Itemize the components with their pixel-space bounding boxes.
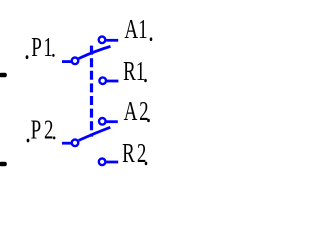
wire P2 stub	[62, 142, 71, 145]
wire switch arm 2 (P2 to A2)	[79, 127, 111, 140]
label A2 comma	[147, 119, 150, 123]
svg-text:P2: P2	[31, 115, 57, 145]
wire P1 stub	[62, 60, 71, 63]
svg-text:A1: A1	[124, 15, 147, 45]
label A1 comma	[150, 37, 153, 41]
node P2 (pole 2 terminal)	[72, 140, 79, 147]
wire A1 stub	[106, 39, 118, 42]
left edge tick near R1 row	[0, 73, 7, 77]
node A2 (actuate contact 2)	[99, 118, 106, 125]
svg-text:R2: R2	[122, 139, 148, 169]
wire R1 stub	[107, 80, 119, 83]
svg-text:A2: A2	[124, 97, 151, 127]
wire switch arm 1 (P1 to A1)	[79, 46, 111, 58]
wire A2 stub	[107, 120, 118, 123]
wire R2 stub	[106, 161, 118, 164]
label P2 leading comma	[27, 139, 30, 143]
node R2 (release contact 2)	[99, 159, 106, 166]
left edge tick near R2 row	[0, 162, 7, 166]
label P2 period	[53, 136, 55, 139]
label R1 comma	[144, 79, 147, 83]
label R2 comma	[145, 162, 148, 166]
svg-text:P1: P1	[31, 33, 54, 63]
svg-text:R1: R1	[123, 57, 145, 87]
node R1 (release contact 1)	[99, 77, 106, 84]
label P1 leading comma	[26, 55, 29, 59]
label P1 period	[52, 54, 54, 57]
node A1 (actuate contact 1)	[99, 37, 106, 44]
node P1 (pole 1 terminal)	[72, 58, 79, 65]
wire mechanical linkage (dashed)	[90, 46, 93, 137]
